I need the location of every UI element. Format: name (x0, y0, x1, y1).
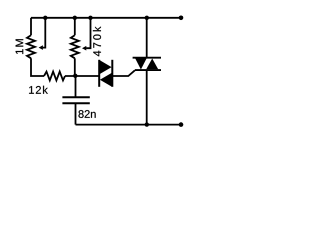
wire diac to triac gate (113, 70, 135, 76)
label 1M (16, 39, 24, 54)
node top-right terminal (179, 15, 184, 20)
wiper of R1 (43, 18, 46, 48)
potentiometer R1 1M body (27, 18, 44, 76)
node bottom-right terminal (179, 122, 184, 127)
wiper of R2 (86, 18, 90, 48)
wire triac MT1 lead (146, 70, 148, 125)
node junction dot triac bottom (145, 122, 149, 126)
resistor R3 12k (44, 72, 65, 81)
wire bottom rail (76, 124, 184, 126)
label 470k (93, 26, 101, 56)
node junction dot triac top (145, 16, 149, 20)
wire 12k to diac node (65, 75, 99, 77)
node junction dot R2 top (73, 16, 77, 20)
node junction dot R2 wiper (88, 16, 92, 20)
potentiometer R2 470k body (71, 18, 79, 76)
node junction dot R1 wiper (43, 16, 47, 20)
label 82n (78, 110, 95, 118)
diac D1 (99, 60, 112, 87)
label 12k (29, 86, 48, 94)
capacitor C1 82n (62, 76, 89, 125)
wire triac MT2 lead (146, 18, 148, 58)
triac T1 (133, 58, 161, 70)
node junction dot cap/diac (73, 74, 77, 78)
wire top rail (31, 17, 183, 19)
